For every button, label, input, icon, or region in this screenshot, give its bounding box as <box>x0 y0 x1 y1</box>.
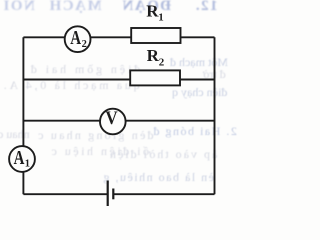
wire right vertical <box>214 37 216 194</box>
svg-text:1: 1 <box>25 158 30 169</box>
ammeter A2 <box>65 26 91 52</box>
bleed line: nhau co (mirrored, far left) <box>0 127 30 142</box>
bleed line: giong nhau ca (mirrored, mid) <box>36 128 154 143</box>
svg-text:A: A <box>14 147 25 169</box>
bleed line: 2. Hai bon (mirrored, right) <box>152 124 237 139</box>
bleed line: dien gom hai d (mirrored, left) <box>28 62 140 77</box>
resistor R2 <box>130 70 180 85</box>
svg-text:2: 2 <box>82 39 87 50</box>
battery short plate <box>112 189 114 200</box>
svg-text:A: A <box>70 27 81 49</box>
bleed line: n la bao nhi (mirrored) <box>102 170 214 185</box>
bleed line: dien chay q (mirrored, right) <box>172 85 227 100</box>
svg-text:R: R <box>147 46 160 65</box>
battery long plate <box>107 181 109 207</box>
svg-text:1: 1 <box>158 12 164 24</box>
bleed fragment: d tro (mirrored, right edge) <box>203 67 226 82</box>
svg-text:2: 2 <box>159 56 165 68</box>
wire bottom right <box>113 193 214 195</box>
wire bottom left <box>23 193 107 195</box>
bleed line: oi dien hieu g (mirrored, mid) <box>49 144 149 159</box>
bleed-through title: 12. DOAN MACH NOI (mirrored) <box>2 0 102 15</box>
bleed line: qua mach la 0,4 A. (mirrored, left) <box>1 78 140 93</box>
svg-text:V: V <box>105 109 118 129</box>
wire row3 (voltmeter branch) <box>23 120 214 122</box>
bleed line: ap vao tha (mirrored, right) <box>108 147 217 162</box>
resistor R1 <box>131 28 180 43</box>
voltmeter V <box>100 109 126 135</box>
wire row2 (R2 branch) <box>23 79 214 81</box>
ammeter A1 <box>9 146 35 172</box>
bleed line: Mot mach (mirrored, right) <box>170 55 228 70</box>
wire top <box>23 36 214 38</box>
wire left vertical <box>22 37 24 194</box>
